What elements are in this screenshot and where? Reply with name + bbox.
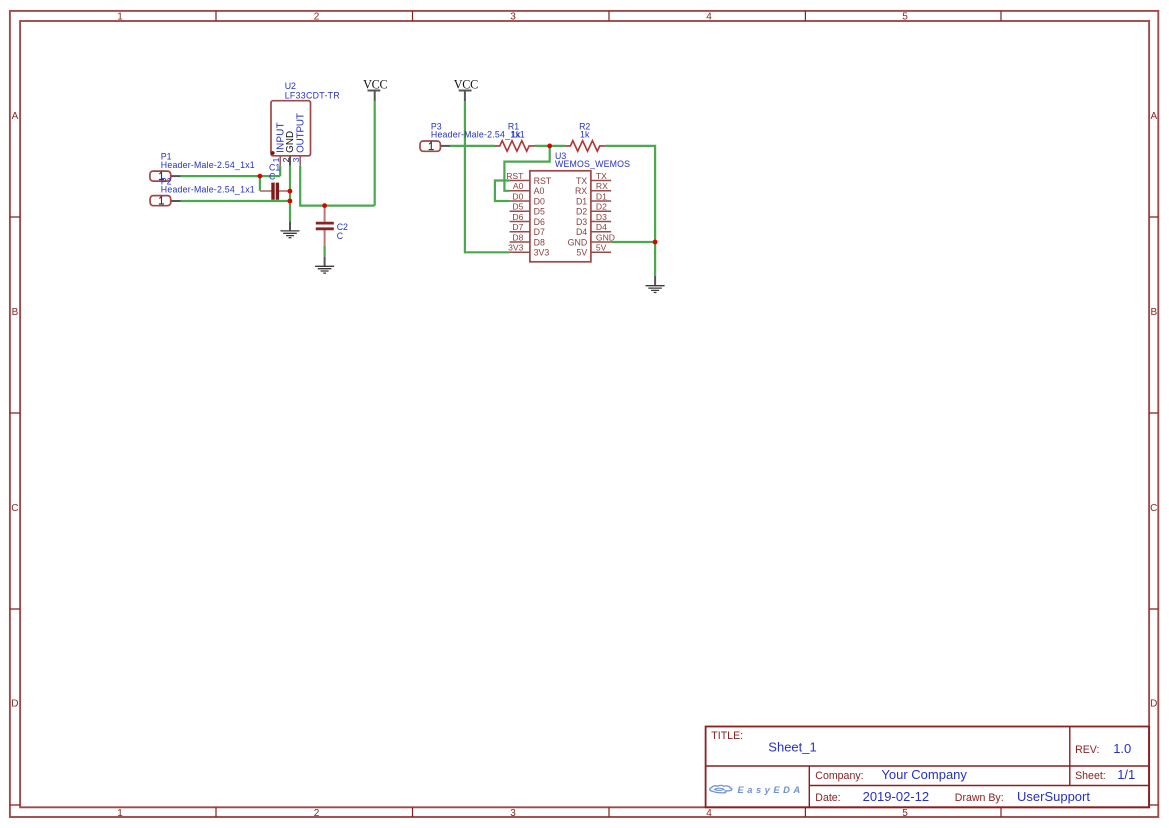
svg-text:Sheet_1: Sheet_1 xyxy=(768,740,816,755)
svg-text:D5: D5 xyxy=(512,202,523,212)
svg-text:RST: RST xyxy=(506,171,524,181)
svg-text:Your Company: Your Company xyxy=(881,767,967,782)
svg-text:3V3: 3V3 xyxy=(534,248,550,258)
svg-text:1.0: 1.0 xyxy=(1113,741,1131,756)
svg-text:1: 1 xyxy=(271,157,281,162)
svg-text:4: 4 xyxy=(706,808,712,819)
svg-text:Header-Male-2.54_1x1: Header-Male-2.54_1x1 xyxy=(161,184,255,194)
svg-text:D3: D3 xyxy=(576,217,587,227)
svg-text:Company:: Company: xyxy=(815,770,863,782)
svg-text:5V: 5V xyxy=(576,248,587,258)
svg-text:WEMOS_WEMOS: WEMOS_WEMOS xyxy=(555,159,630,169)
svg-text:B: B xyxy=(12,307,19,318)
svg-text:C: C xyxy=(1150,503,1157,514)
svg-text:4: 4 xyxy=(706,12,712,23)
svg-text:Date:: Date: xyxy=(815,792,840,804)
svg-text:RX: RX xyxy=(596,181,608,191)
svg-text:2: 2 xyxy=(281,157,291,162)
svg-text:UserSupport: UserSupport xyxy=(1017,789,1090,804)
svg-text:3: 3 xyxy=(510,12,516,23)
svg-text:D6: D6 xyxy=(534,217,545,227)
svg-text:2: 2 xyxy=(314,12,320,23)
svg-text:VCC: VCC xyxy=(363,78,388,92)
svg-text:D3: D3 xyxy=(596,212,607,222)
svg-text:EasyEDA: EasyEDA xyxy=(738,784,804,795)
svg-text:LF33CDT-TR: LF33CDT-TR xyxy=(285,90,340,100)
svg-text:REV:: REV: xyxy=(1075,744,1099,756)
svg-text:1: 1 xyxy=(117,12,123,23)
svg-text:A: A xyxy=(1150,111,1157,122)
svg-text:5: 5 xyxy=(902,808,908,819)
svg-text:TITLE:: TITLE: xyxy=(711,730,743,742)
svg-text:D4: D4 xyxy=(596,222,607,232)
svg-text:D2: D2 xyxy=(576,207,587,217)
svg-text:3V3: 3V3 xyxy=(508,243,524,253)
svg-text:Header-Male-2.54_1x1: Header-Male-2.54_1x1 xyxy=(161,160,255,170)
svg-text:3: 3 xyxy=(510,808,516,819)
svg-text:D7: D7 xyxy=(534,227,545,237)
svg-text:Drawn By:: Drawn By: xyxy=(955,792,1004,804)
svg-text:RST: RST xyxy=(534,176,552,186)
svg-text:D4: D4 xyxy=(576,227,587,237)
svg-text:D0: D0 xyxy=(512,191,523,201)
svg-text:A0: A0 xyxy=(534,186,545,196)
svg-text:2: 2 xyxy=(314,808,320,819)
svg-text:D0: D0 xyxy=(534,196,545,206)
svg-text:B: B xyxy=(1150,307,1157,318)
svg-text:OUTPUT: OUTPUT xyxy=(295,113,306,153)
svg-text:D2: D2 xyxy=(596,202,607,212)
svg-text:D7: D7 xyxy=(512,222,523,232)
svg-text:1: 1 xyxy=(117,808,123,819)
svg-text:A: A xyxy=(12,111,19,122)
svg-text:D: D xyxy=(1150,699,1157,710)
svg-text:D8: D8 xyxy=(512,232,523,242)
svg-text:GND: GND xyxy=(568,237,588,247)
svg-text:D8: D8 xyxy=(534,237,545,247)
svg-text:A0: A0 xyxy=(513,181,524,191)
svg-text:Sheet:: Sheet: xyxy=(1075,770,1106,782)
svg-text:C: C xyxy=(337,231,344,241)
svg-text:3: 3 xyxy=(291,157,301,162)
svg-text:TX: TX xyxy=(576,176,587,186)
svg-text:5V: 5V xyxy=(596,243,607,253)
svg-text:D: D xyxy=(11,699,18,710)
svg-text:1/1: 1/1 xyxy=(1117,767,1135,782)
svg-text:C: C xyxy=(269,172,276,182)
svg-text:D5: D5 xyxy=(534,207,545,217)
svg-text:TX: TX xyxy=(596,171,607,181)
svg-text:D6: D6 xyxy=(512,212,523,222)
svg-text:VCC: VCC xyxy=(454,78,479,92)
svg-text:C: C xyxy=(11,503,18,514)
svg-text:GND: GND xyxy=(596,232,615,242)
svg-text:5: 5 xyxy=(902,12,908,23)
svg-text:D1: D1 xyxy=(576,196,587,206)
svg-text:1k: 1k xyxy=(580,130,590,140)
svg-text:RX: RX xyxy=(575,186,587,196)
svg-text:1k: 1k xyxy=(511,130,521,140)
svg-text:2019-02-12: 2019-02-12 xyxy=(863,789,930,804)
svg-text:D1: D1 xyxy=(596,191,607,201)
